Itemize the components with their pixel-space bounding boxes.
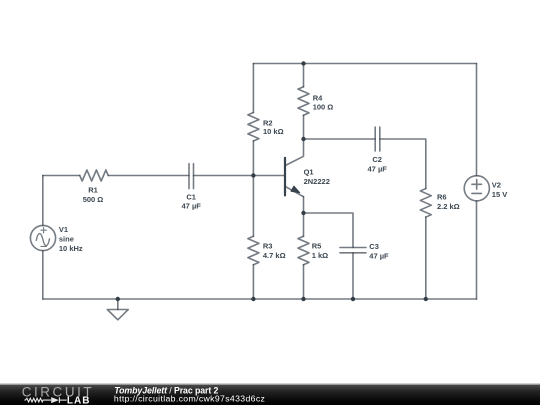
wire R3 to ground rail xyxy=(252,265,254,299)
wire emitter lead xyxy=(303,197,305,237)
svg-text:10 kHz: 10 kHz xyxy=(59,244,83,253)
node collector junction xyxy=(301,137,305,141)
voltage source V1 xyxy=(30,225,55,250)
wire V1 top lead xyxy=(42,176,44,226)
wire C2 to R6 xyxy=(380,139,426,189)
wire R6 to ground rail xyxy=(425,217,427,299)
node ground junction xyxy=(116,297,120,301)
svg-text:sine: sine xyxy=(59,235,74,244)
svg-text:47 µF: 47 µF xyxy=(369,252,389,261)
svg-text:Q1: Q1 xyxy=(304,168,314,177)
node R6 bottom junction xyxy=(424,297,428,301)
wire input to R1 xyxy=(43,175,80,177)
svg-text:C2: C2 xyxy=(372,155,382,164)
wire R5 to ground rail xyxy=(303,265,305,299)
transistor Q1 xyxy=(285,158,304,197)
svg-text:4.7 kΩ: 4.7 kΩ xyxy=(263,251,286,260)
wire R1 to C1 xyxy=(108,175,189,177)
voltage source V2 xyxy=(464,176,489,201)
wire collector to C2 xyxy=(304,138,376,140)
svg-text:47 µF: 47 µF xyxy=(182,202,202,211)
node base junction xyxy=(251,173,255,177)
svg-text:C1: C1 xyxy=(186,192,196,201)
wire C3 to ground rail xyxy=(352,253,354,299)
svg-text:2N2222: 2N2222 xyxy=(304,177,330,186)
svg-text:R3: R3 xyxy=(263,242,273,251)
resistor R5 xyxy=(298,236,309,265)
svg-text:10 kΩ: 10 kΩ xyxy=(263,127,284,136)
resistor R1 xyxy=(80,170,109,181)
resistor R6 xyxy=(420,189,431,218)
footer title text xyxy=(114,386,265,404)
wire right rail lower xyxy=(476,201,478,299)
wire bottom rail xyxy=(43,298,477,300)
svg-text:R2: R2 xyxy=(263,118,273,127)
capacitor C2 xyxy=(375,127,380,151)
wire R4 top lead xyxy=(303,64,305,87)
resistor R3 xyxy=(248,236,259,265)
svg-text:LAB: LAB xyxy=(67,395,91,405)
svg-text:15 V: 15 V xyxy=(492,190,507,199)
capacitor C1 xyxy=(189,164,194,189)
ground xyxy=(107,299,128,320)
svg-text:R5: R5 xyxy=(312,242,322,251)
svg-text:V1: V1 xyxy=(59,225,68,234)
svg-text:C3: C3 xyxy=(369,242,379,251)
wire right rail upper xyxy=(476,64,478,176)
svg-text:V2: V2 xyxy=(492,180,501,189)
wire R4 to collector node xyxy=(303,115,305,139)
svg-text:R6: R6 xyxy=(437,193,447,202)
svg-text:500 Ω: 500 Ω xyxy=(83,195,104,204)
svg-text:1 kΩ: 1 kΩ xyxy=(312,251,328,260)
svg-text:100 Ω: 100 Ω xyxy=(313,103,334,112)
wire V1 bottom lead xyxy=(42,251,44,299)
wire emitter branch to C3 xyxy=(304,213,354,248)
resistor R2 xyxy=(248,112,259,141)
svg-text:2.2 kΩ: 2.2 kΩ xyxy=(437,202,460,211)
wire collector lead xyxy=(285,139,304,166)
wire top rail xyxy=(253,63,476,65)
node R3 bottom junction xyxy=(251,297,255,301)
node R5 bottom junction xyxy=(301,297,305,301)
wire R2 upper branch xyxy=(252,64,254,113)
node C3 bottom junction xyxy=(351,297,355,301)
wire R2 to base node xyxy=(252,141,254,176)
resistor R4 xyxy=(298,87,309,116)
svg-text:R4: R4 xyxy=(313,93,323,102)
svg-text:R1: R1 xyxy=(88,186,98,195)
logo CircuitLab xyxy=(22,385,95,405)
svg-text:http://circuitlab.com/cwk97s43: http://circuitlab.com/cwk97s433d6cz xyxy=(114,393,265,403)
capacitor C3 xyxy=(340,248,366,253)
wire C1 to base xyxy=(194,175,286,177)
wire base node to R3 xyxy=(252,176,254,237)
node top rail junction xyxy=(301,61,305,65)
node emitter junction xyxy=(301,211,305,215)
svg-text:47 µF: 47 µF xyxy=(368,164,388,173)
